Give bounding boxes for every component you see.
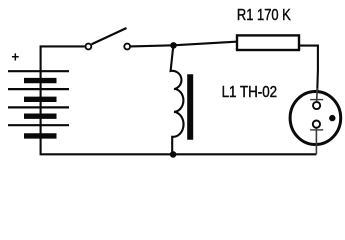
svg-text:L1 TH-02: L1 TH-02 xyxy=(222,84,278,101)
svg-text:R1 170 K: R1 170 K xyxy=(237,7,291,24)
svg-text:+: + xyxy=(11,49,19,64)
